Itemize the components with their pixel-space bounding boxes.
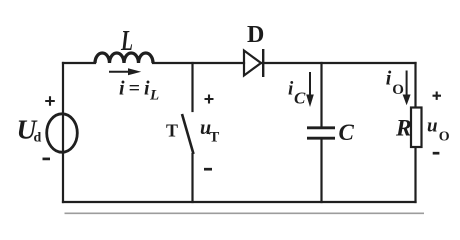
svg-text:D: D [247, 22, 264, 48]
svg-text:i: i [386, 68, 392, 90]
svg-text:i = i: i = i [119, 78, 150, 100]
svg-text:L: L [120, 26, 133, 57]
svg-text:T: T [209, 129, 219, 145]
svg-text:C: C [339, 120, 355, 145]
svg-text:C: C [294, 89, 306, 108]
svg-text:T: T [166, 121, 178, 141]
svg-text:L: L [149, 88, 159, 104]
svg-text:O: O [392, 82, 404, 98]
svg-text:u: u [427, 115, 438, 136]
svg-text:O: O [439, 129, 450, 144]
svg-text:R: R [395, 116, 412, 142]
svg-text:d: d [34, 131, 42, 146]
